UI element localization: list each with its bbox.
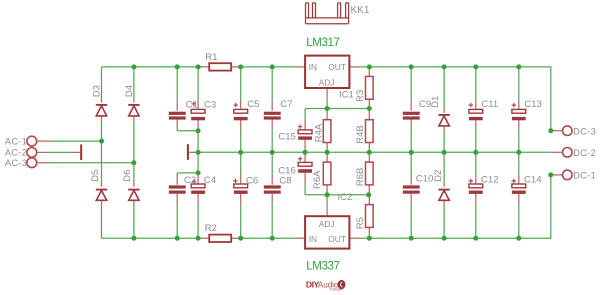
svg-text:LM317: LM317 (306, 37, 339, 49)
svg-text:C2: C2 (184, 175, 196, 186)
connector DC-2 circle (563, 148, 573, 158)
capacitor C15 plates polarized (298, 130, 312, 140)
regulator IC2 LM337 box (305, 216, 349, 248)
svg-text:D3: D3 (92, 85, 103, 97)
svg-text:KK1: KK1 (351, 5, 370, 16)
connector DC-3 circle (563, 126, 573, 136)
R2 pin stubs (198, 237, 241, 239)
capacitor C5 plates polarized (234, 109, 248, 120)
capacitor C16 plus (298, 157, 302, 161)
svg-text:C8: C8 (279, 175, 291, 186)
DC-1 connector pin stub (551, 174, 563, 176)
capacitor C14 plus (512, 179, 516, 183)
connector AC-2 circle (27, 148, 37, 158)
wire bottom rail -reg from IC2 OUT to right bus (360, 175, 551, 238)
wire D1 column (443, 67, 445, 152)
C6 pin stubs (240, 174, 242, 204)
D6 pin stubs (133, 181, 135, 206)
R4A pin stubs (326, 109, 328, 153)
capacitor C4 plates polarized (191, 184, 205, 194)
wire C9 column (410, 67, 412, 152)
wire bottom rail -raw left segment (102, 237, 199, 239)
IC1 pin IN stub (295, 66, 306, 68)
wire AC-2 to supply T (49, 151, 71, 153)
C5 pin stubs (240, 100, 242, 130)
op-amp regulator U IC1 LM317 box (305, 56, 349, 88)
wire bottom rail from R2 to IC2 IN (241, 237, 295, 239)
wire IC2 ADJ to ADJ2 net (326, 195, 328, 206)
svg-text:R5: R5 (355, 217, 366, 229)
C3 pin stubs (197, 100, 199, 129)
connector AC-3 circle (27, 158, 37, 168)
supply T2 pin stub (189, 151, 199, 153)
junction dots top rail (131, 64, 521, 69)
svg-text:R4B: R4B (355, 125, 366, 143)
wire C14 column (518, 152, 520, 238)
wire C16 bottom to ADJ2 corner (304, 183, 306, 195)
svg-text:D4: D4 (124, 85, 135, 97)
R6A pin stubs (326, 152, 328, 195)
wire AC-1 to bridge node (49, 140, 101, 142)
wire C10 column (410, 152, 412, 238)
DIYAudio logo (306, 279, 346, 291)
connector AC-1 circle (27, 136, 37, 146)
capacitor C2 plates (169, 185, 186, 193)
svg-text:R4A: R4A (314, 123, 325, 142)
svg-text:Türkiye: Türkiye (329, 287, 342, 292)
diode D3 (96, 105, 107, 116)
supply symbol T2 bar (187, 144, 189, 160)
wire ADJ2 net horizontal (305, 194, 369, 196)
svg-text:C15: C15 (278, 132, 296, 143)
R4B pin stubs (368, 109, 370, 153)
wire IC1 ADJ to ADJ1 net (326, 99, 328, 109)
junction dots center rail (196, 150, 522, 155)
resistor R4A (323, 120, 331, 143)
svg-text:OUT: OUT (328, 234, 346, 244)
capacitor C8 plates (264, 185, 281, 193)
capacitor C6 plus (233, 179, 237, 183)
C15 pin stubs (304, 120, 306, 153)
svg-text:C12: C12 (481, 175, 499, 186)
svg-text:IN: IN (309, 234, 317, 244)
svg-text:AC-3: AC-3 (5, 158, 27, 168)
diode D5 (96, 190, 107, 201)
D5 pin stubs (101, 181, 103, 206)
capacitor C11 plates polarized (469, 109, 483, 120)
diode D1 (438, 115, 449, 126)
IC1 pin OUT stub (349, 66, 359, 68)
C2 pin stubs (176, 173, 178, 204)
svg-text:C11: C11 (481, 99, 498, 110)
C8 pin stubs (271, 174, 273, 204)
capacitor C12 plus (469, 179, 473, 183)
wire ADJ1 net horizontal (305, 108, 369, 110)
svg-text:ADJ: ADJ (319, 78, 335, 88)
wire D2 column (443, 152, 445, 238)
R6B pin stubs (368, 152, 370, 195)
capacitor C10 plates (403, 185, 420, 193)
diode D4 (128, 105, 139, 116)
R1 pin stubs (198, 66, 241, 68)
svg-text:DC-1: DC-1 (573, 171, 596, 181)
wire C11 column (475, 67, 477, 152)
svg-text:C7: C7 (280, 99, 292, 110)
svg-text:AC-2: AC-2 (5, 148, 27, 158)
svg-text:C9: C9 (419, 99, 431, 110)
wire center rail 0V (198, 151, 551, 153)
wire C2 column (177, 173, 198, 238)
C13 pin stubs (518, 100, 520, 130)
svg-text:C5: C5 (247, 99, 259, 110)
resistor R6A (323, 162, 331, 185)
svg-text:R3: R3 (355, 90, 366, 102)
IC1 pin ADJ stub (326, 88, 328, 99)
wire C6 column (240, 152, 242, 238)
C10 pin stubs (410, 174, 412, 204)
wire C1 column (177, 67, 198, 131)
wire top rail +raw left segment (102, 66, 199, 68)
C16 pin stubs (304, 152, 306, 183)
IC2 pin IN stub (295, 237, 306, 239)
junction dots bottom rail (131, 236, 521, 241)
svg-text:R1: R1 (205, 52, 217, 63)
capacitor C13 plus (512, 103, 516, 107)
svg-text:LM337: LM337 (306, 261, 339, 273)
connector DC-1 circle (563, 170, 573, 180)
wire C12 column (475, 152, 477, 238)
IC2 pin OUT stub (349, 237, 359, 239)
svg-text:ADJ: ADJ (319, 219, 335, 229)
svg-text:IC2: IC2 (338, 192, 353, 203)
junction dots ADJ nets and nodes (99, 106, 553, 197)
wire C8 column (271, 152, 273, 238)
svg-text:C6: C6 (246, 175, 258, 186)
wire C7 column (271, 67, 273, 152)
capacitor C16 plates polarized (298, 162, 312, 172)
capacitor C4 plus (192, 179, 196, 183)
C4 pin stubs (197, 173, 199, 204)
svg-text:DC-2: DC-2 (573, 148, 596, 158)
AC-1 connector pin stub (37, 140, 50, 142)
wire top rail +reg from IC1 OUT to right bus (360, 67, 551, 131)
capacitor C3 plus (192, 102, 196, 106)
C7 pin stubs (271, 100, 273, 130)
svg-text:D2: D2 (433, 170, 444, 182)
C11 pin stubs (475, 100, 477, 130)
R3 pin stubs (368, 67, 370, 109)
resistor R2 (209, 235, 231, 242)
svg-text:D5: D5 (90, 170, 101, 182)
svg-text:DC-3: DC-3 (573, 126, 596, 136)
svg-text:C1: C1 (186, 100, 198, 111)
capacitor C15 plus (298, 125, 302, 129)
svg-text:AC-1: AC-1 (5, 136, 27, 146)
D1 pin stubs (443, 108, 445, 133)
capacitor C9 plates (403, 112, 420, 120)
diode D2 (438, 190, 449, 201)
AC-3 connector pin stub (37, 162, 50, 164)
svg-text:C4: C4 (204, 175, 217, 186)
resistor R3 (366, 76, 374, 99)
wire C13 column (518, 67, 520, 152)
wire C3 C4 column vertical through 0V (197, 67, 199, 238)
C12 pin stubs (475, 174, 477, 204)
wire D4 D6 column (133, 67, 135, 238)
AC-2 connector pin stub (37, 151, 50, 153)
capacitor C11 plus (469, 103, 473, 107)
svg-text:C13: C13 (524, 99, 542, 110)
svg-text:OUT: OUT (328, 62, 346, 72)
wire top rail from R1 to IC1 IN (241, 66, 295, 68)
D2 pin stubs (443, 181, 445, 206)
resistor R1 (209, 63, 231, 70)
wire D3 D5 column (101, 67, 103, 238)
capacitor C6 plates polarized (234, 184, 248, 194)
svg-text:D6: D6 (122, 170, 133, 182)
D4 pin stubs (133, 97, 135, 122)
svg-text:C14: C14 (524, 175, 542, 186)
wire AC-3 to bridge node (49, 162, 134, 164)
wire C15 top from ADJ1 corner (304, 109, 306, 120)
IC2 pin ADJ stub (326, 206, 328, 216)
C9 pin stubs (410, 100, 412, 130)
svg-text:IN: IN (309, 62, 317, 72)
svg-text:D1: D1 (430, 96, 441, 108)
supply T1 pin stub (71, 151, 80, 153)
svg-text:IC1: IC1 (339, 90, 354, 101)
svg-text:R6A: R6A (312, 170, 323, 189)
resistor R5 (366, 205, 374, 228)
C14 pin stubs (518, 174, 520, 204)
C1 pin stubs (176, 100, 178, 130)
DC-2 connector pin stub (551, 151, 563, 153)
capacitor C1 plates (169, 112, 186, 120)
svg-text:R6B: R6B (355, 168, 366, 186)
R5 pin stubs (368, 195, 370, 238)
svg-text:C10: C10 (416, 174, 434, 185)
svg-text:R2: R2 (205, 223, 217, 234)
capacitor C5 plus (234, 103, 238, 107)
resistor R4B (366, 120, 374, 143)
D3 pin stubs (101, 97, 103, 122)
heatsink KK1 (306, 3, 349, 24)
supply symbol T1 bar (80, 144, 82, 160)
wire C5 column (240, 67, 242, 152)
diode D6 (128, 190, 139, 201)
svg-text:C3: C3 (204, 100, 216, 111)
DC-3 connector pin stub (551, 130, 563, 132)
capacitor C7 plates (264, 112, 281, 120)
capacitor C14 plates polarized (512, 184, 526, 194)
capacitor C12 plates polarized (469, 184, 483, 194)
resistor R6B (366, 162, 374, 185)
capacitor C13 plates polarized (512, 109, 526, 120)
capacitor C3 plates polarized (191, 109, 205, 120)
